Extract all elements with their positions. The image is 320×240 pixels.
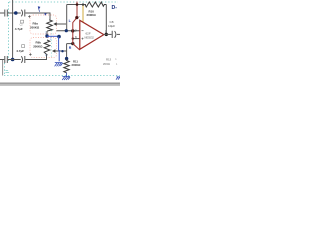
wire bottom row left xyxy=(0,59,4,61)
wire top row right xyxy=(25,13,50,20)
wire pin2 horizontal xyxy=(57,30,80,32)
node red on top wire xyxy=(76,3,79,6)
svg-text:3: 3 xyxy=(75,35,77,39)
ground stem xyxy=(58,51,60,61)
R9a wiper arrow xyxy=(56,23,66,25)
wire V- stub xyxy=(67,43,73,45)
wire output xyxy=(104,33,112,35)
node output xyxy=(105,33,108,36)
polarity dot C7 xyxy=(29,53,31,55)
node pin3 xyxy=(72,37,74,39)
selection box (teal dashed) bottom edge xyxy=(4,75,120,77)
svg-text:NE5532: NE5532 xyxy=(85,36,95,40)
svg-text:200KΩ: 200KΩ xyxy=(87,13,97,17)
wire inverting input bus xyxy=(66,5,68,31)
capacitor C2 curved plate xyxy=(21,10,22,17)
wire blue down from node xyxy=(59,37,61,51)
R9b wiper arrow xyxy=(55,50,67,52)
capacitor C6 plates xyxy=(4,56,6,63)
svg-text:200Ω: 200Ω xyxy=(103,62,111,66)
node pot mid 2 xyxy=(57,35,61,39)
svg-text:200KΩ: 200KΩ xyxy=(30,25,40,29)
node R11 top xyxy=(65,57,68,60)
node bottom-left xyxy=(11,58,15,62)
svg-text:R12: R12 xyxy=(106,57,112,61)
ground symbol xyxy=(55,63,63,67)
wire output right xyxy=(117,33,120,35)
svg-text:4.7µF: 4.7µF xyxy=(15,27,23,31)
node pin2 xyxy=(71,29,74,32)
svg-text:62F: 62F xyxy=(86,31,91,35)
resistor R10 zigzag xyxy=(85,2,106,7)
svg-text:200KΩ: 200KΩ xyxy=(33,44,43,48)
potentiometer R9b zigzag xyxy=(44,40,50,55)
wire bottom row right xyxy=(25,55,46,60)
op-amp U2A triangle xyxy=(80,20,104,49)
op-amp plus mark xyxy=(82,38,84,40)
svg-text:R: R xyxy=(69,46,72,50)
wire top feedback horizontal xyxy=(67,4,86,6)
highlight box (red dashed) around R9b xyxy=(30,38,57,58)
frame edge (gray vertical) xyxy=(2,60,4,76)
label box C2 xyxy=(21,20,24,23)
wire vertical left bus xyxy=(12,0,14,60)
svg-text:D-: D- xyxy=(112,5,118,11)
node wiper junction xyxy=(61,50,63,52)
node feedback xyxy=(65,29,68,32)
node V- xyxy=(71,42,74,45)
wire top row mid xyxy=(8,12,21,14)
node top xyxy=(14,11,18,15)
selection box (teal dashed) left edge xyxy=(8,2,10,62)
svg-text:4.7µF: 4.7µF xyxy=(16,49,24,53)
ground below R11 (blue) xyxy=(62,73,70,80)
net flag blue 2 xyxy=(44,13,46,16)
capacitor C7 curved plate xyxy=(21,56,22,63)
scrollbar band xyxy=(0,82,120,85)
capacitor C1 plates xyxy=(4,10,6,17)
polarity plus C2 xyxy=(28,15,30,17)
wire R11 vertical xyxy=(66,44,68,59)
tiny marks bottom-left xyxy=(6,71,10,73)
capacitor C8 straight plate xyxy=(111,31,113,38)
node red mid xyxy=(75,16,78,19)
net flag blue 1 xyxy=(38,6,41,10)
selection box (teal dashed) top edge xyxy=(9,1,118,3)
wire top row left xyxy=(0,12,4,14)
node pot mid 1 xyxy=(45,34,48,37)
svg-text:200KΩ: 200KΩ xyxy=(72,63,82,67)
wire pin3 stub xyxy=(73,38,80,40)
pot selection dashes (teal vertical) xyxy=(51,30,53,57)
selection box (teal dashed) lower-left edge xyxy=(4,63,6,75)
op-amp minus mark xyxy=(82,30,84,32)
capacitor C8 curved plate xyxy=(115,31,116,38)
net flag blue right edge xyxy=(116,77,120,80)
supply wire (yellow) xyxy=(82,5,84,22)
capacitor C2 straight plate xyxy=(24,10,26,17)
wire bottom row mid xyxy=(8,59,21,61)
svg-text:2: 2 xyxy=(75,29,77,33)
resistor R11 zigzag xyxy=(64,59,69,73)
red net wire xyxy=(73,2,80,50)
highlight box (red dashed) around R9a xyxy=(30,15,57,34)
wire R10 down to output xyxy=(105,5,107,35)
capacitor C7 straight plate xyxy=(24,56,26,63)
svg-text:10µF: 10µF xyxy=(108,24,115,28)
label box C7 xyxy=(22,45,25,48)
potentiometer R9a zigzag xyxy=(47,20,53,32)
R9a bottom lead xyxy=(46,31,48,36)
wire blue pot to ground xyxy=(47,35,59,37)
